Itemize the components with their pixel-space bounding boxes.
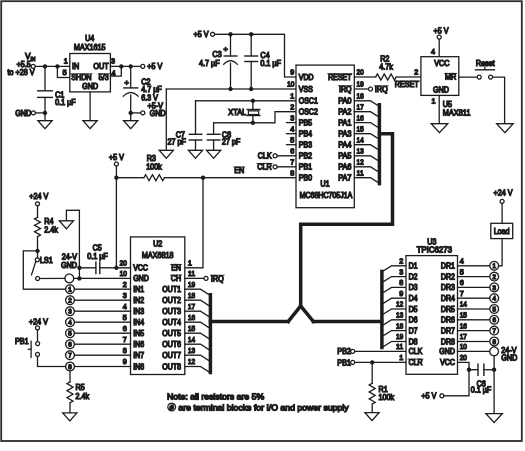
svg-text:IN: IN (72, 62, 79, 71)
node terminal 8 right (490, 337, 499, 346)
svg-text:D8: D8 (409, 337, 418, 346)
wire PA pins to bus (354, 101, 379, 183)
svg-text:13: 13 (357, 147, 364, 156)
svg-text:100k: 100k (379, 393, 395, 402)
node +24V PB1 terminal (29, 318, 49, 330)
svg-text:18: 18 (357, 92, 364, 101)
svg-text:6: 6 (123, 324, 127, 333)
svg-text:SHDN: SHDN (71, 73, 92, 82)
svg-text:D4: D4 (409, 294, 419, 303)
op IC U4 MAX1615 box (70, 34, 111, 92)
svg-text:Load: Load (494, 227, 510, 236)
svg-text:9: 9 (399, 289, 403, 298)
pin number labels U2 right (188, 259, 195, 367)
wire EN net to PB0 (164, 177, 296, 179)
svg-text:MAX6818: MAX6818 (142, 251, 174, 260)
svg-text:D6: D6 (409, 316, 418, 325)
svg-text:6: 6 (68, 342, 72, 349)
svg-text:14: 14 (188, 335, 195, 344)
svg-text:+: + (125, 78, 130, 87)
svg-text:20: 20 (120, 259, 127, 268)
svg-text:MC68HC705J1A: MC68HC705J1A (300, 191, 353, 200)
svg-text:Note: all resistors are 5%: Note: all resistors are 5% (167, 392, 264, 402)
svg-text:3: 3 (492, 285, 496, 292)
svg-text:+24 V: +24 V (29, 192, 49, 201)
svg-text:IRQ: IRQ (375, 85, 388, 94)
svg-text:IN: IN (31, 57, 36, 63)
bus horizontal left (210, 320, 288, 324)
resistor R1 100k (369, 362, 395, 412)
capacitor C5 0.1uF (79, 244, 130, 274)
svg-text:16: 16 (357, 113, 364, 122)
svg-text:D7: D7 (409, 326, 418, 335)
svg-text:17: 17 (357, 102, 364, 111)
resistor R3 100k (116, 154, 164, 181)
svg-text:1: 1 (492, 263, 496, 270)
junction R1 top (370, 360, 374, 364)
svg-text:OUT5: OUT5 (162, 329, 181, 338)
svg-text:are terminal blocks for I/O an: are terminal blocks for I/O and power su… (178, 403, 349, 413)
ground C8 (207, 150, 221, 158)
svg-text:OSC2: OSC2 (299, 108, 318, 117)
svg-text:PB4: PB4 (299, 130, 313, 139)
svg-text:5/3: 5/3 (99, 73, 109, 82)
svg-text:LS1: LS1 (40, 256, 53, 265)
node 24-V GND terminal left (65, 274, 131, 283)
svg-text:DR6: DR6 (441, 316, 455, 325)
svg-text:18: 18 (396, 321, 403, 330)
wire GND terminal to C1 (35, 112, 45, 114)
svg-text:2: 2 (399, 257, 403, 266)
svg-text:4: 4 (290, 124, 294, 133)
svg-text:IN1: IN1 (133, 285, 144, 294)
svg-text:TPIC6273: TPIC6273 (417, 246, 453, 255)
node terminal 7 right (490, 326, 499, 335)
ground R5 (63, 413, 77, 421)
svg-text:7: 7 (492, 328, 496, 335)
svg-text:2: 2 (414, 67, 418, 76)
bus Y split left leg (288, 306, 301, 322)
svg-text:5: 5 (460, 267, 464, 276)
svg-text:1: 1 (432, 97, 436, 106)
node terminal 4 left (66, 318, 75, 327)
svg-text:2: 2 (68, 298, 72, 305)
svg-text:PB1: PB1 (299, 163, 312, 172)
svg-text:PB2: PB2 (337, 347, 351, 356)
wire OSC2 net (214, 112, 296, 123)
svg-text:100k: 100k (146, 163, 162, 172)
svg-text:2.4k: 2.4k (44, 226, 58, 235)
junction C6 left (467, 368, 471, 372)
svg-text:6: 6 (460, 278, 464, 287)
svg-text:IN3: IN3 (133, 307, 144, 316)
svg-text:7: 7 (460, 289, 464, 298)
svg-text:U1: U1 (320, 180, 330, 189)
svg-text:3: 3 (123, 291, 127, 300)
svg-text:11: 11 (396, 342, 403, 351)
svg-text:2: 2 (290, 102, 294, 111)
capacitor C3 4.7uF (199, 34, 237, 89)
node +5V U5 terminal (434, 27, 450, 57)
svg-text:DR5: DR5 (441, 305, 456, 314)
svg-text:6: 6 (492, 317, 496, 324)
svg-text:9: 9 (290, 68, 294, 77)
capacitor C4 0.1uF (245, 34, 281, 89)
ground R1 (365, 413, 379, 421)
svg-text:0.1 µF: 0.1 µF (260, 59, 281, 68)
node terminal 2 right (490, 272, 499, 281)
capacitor C8 27pF (207, 123, 240, 151)
load block (491, 203, 513, 238)
svg-text:16: 16 (188, 313, 195, 322)
wires U2 outputs to bus (185, 289, 210, 372)
svg-text:19: 19 (357, 80, 364, 89)
bus Y split right leg (301, 306, 314, 322)
wires bus to U3 inputs (382, 266, 406, 348)
node CLR terminal (257, 163, 296, 172)
label 24-V GND left (61, 252, 78, 270)
svg-text:+5 V: +5 V (109, 153, 125, 162)
label U5 MAX811 (443, 100, 471, 117)
svg-text:CLR: CLR (257, 163, 272, 172)
node terminal 3 left (66, 307, 75, 316)
svg-text:GND: GND (433, 86, 449, 95)
wire 24V GND down (493, 356, 495, 414)
svg-text:1: 1 (188, 259, 192, 268)
svg-text:18: 18 (188, 291, 195, 300)
wire OSC1 net (196, 100, 297, 102)
svg-text:PB1: PB1 (15, 337, 29, 346)
node terminal 4 right (490, 294, 499, 303)
stub PB3 (287, 144, 297, 146)
ground U4 GND pin (83, 92, 97, 129)
svg-text:3: 3 (399, 267, 403, 276)
svg-text:1: 1 (64, 57, 68, 66)
node terminal 6 left (66, 340, 75, 349)
node +5V U3 terminal (421, 370, 469, 401)
svg-text:D2: D2 (409, 272, 418, 281)
junction pin4 jog (119, 64, 123, 68)
node IRQ terminal U1 (354, 85, 388, 94)
wire RESET net (354, 76, 375, 78)
svg-text:XTAL: XTAL (228, 108, 247, 117)
wire pin4 jog (110, 66, 121, 76)
svg-text:3: 3 (68, 309, 72, 316)
note text (167, 392, 349, 413)
resistor R2 4.7k (376, 54, 397, 80)
bus PA to main (301, 134, 393, 306)
svg-text:5: 5 (290, 135, 294, 144)
pin number labels U1 right (357, 68, 364, 178)
op IC U2 MAX6818 box (131, 237, 185, 375)
svg-text:19: 19 (396, 332, 403, 341)
svg-text:+5 V: +5 V (421, 392, 437, 401)
svg-text:0.1 µF: 0.1 µF (87, 252, 108, 261)
svg-text:GND: GND (133, 274, 149, 283)
wire +5V down to U2 VCC (115, 178, 117, 268)
wire U3 VCC to C6 (458, 362, 479, 369)
svg-text:7: 7 (68, 353, 72, 360)
wire +5V rail to VDD (215, 34, 296, 77)
svg-text:OUT: OUT (93, 62, 108, 71)
svg-text:IN5: IN5 (133, 329, 144, 338)
svg-text:D5: D5 (409, 305, 419, 314)
svg-text:4.7 µF: 4.7 µF (199, 59, 220, 68)
svg-text:PA7: PA7 (338, 174, 351, 183)
pin number labels U3 right (460, 257, 467, 363)
svg-text:+5 V: +5 V (434, 27, 450, 36)
svg-text:1: 1 (68, 287, 72, 294)
wire VIN to U4 IN (35, 65, 70, 67)
svg-text:OSC1: OSC1 (299, 97, 318, 106)
node terminal 3 right (490, 283, 499, 292)
wire R4 node to IN1 (23, 251, 65, 289)
svg-text:MR: MR (445, 73, 456, 82)
svg-text:5: 5 (63, 68, 67, 77)
svg-text:RESET: RESET (395, 80, 419, 89)
svg-text:IRQ: IRQ (211, 274, 224, 283)
wire Reset to ground (493, 77, 505, 124)
svg-text:10: 10 (460, 342, 467, 351)
svg-text:GND: GND (15, 109, 31, 118)
wire EN down to U2 pin1 (185, 178, 203, 268)
svg-text:IN6: IN6 (133, 340, 144, 349)
wire SHDN jog (57, 66, 69, 77)
junction SHDN tie (55, 64, 59, 68)
svg-text:4: 4 (123, 302, 127, 311)
junction R3 left (114, 176, 118, 180)
svg-text:8: 8 (399, 278, 403, 287)
svg-text:MAX1615: MAX1615 (74, 43, 106, 52)
svg-text:17: 17 (460, 332, 467, 341)
ground 24V GND right (486, 414, 503, 423)
svg-text:PB0: PB0 (299, 174, 313, 183)
crystal XTAL (228, 101, 259, 123)
svg-text:11: 11 (188, 269, 195, 278)
svg-text:Reset: Reset (476, 59, 495, 68)
node +5-V GND terminal (133, 102, 166, 118)
wire +5V down to R3 node (115, 166, 117, 178)
wire Load to terminal 1 (499, 239, 503, 266)
svg-text:8: 8 (492, 339, 496, 346)
ground 24V tie (59, 210, 79, 267)
node terminal 7 left (66, 351, 75, 360)
svg-text:PB3: PB3 (299, 141, 312, 150)
svg-text:EN: EN (234, 166, 244, 175)
svg-text:PA4: PA4 (338, 141, 352, 150)
svg-text:1: 1 (399, 353, 403, 362)
svg-text:PA2: PA2 (338, 108, 351, 117)
svg-text:20: 20 (357, 68, 364, 77)
wire C5 gnd jog (78, 268, 80, 279)
svg-text:PA6: PA6 (338, 163, 351, 172)
svg-text:7: 7 (290, 158, 294, 167)
svg-text:8: 8 (68, 364, 72, 371)
svg-text:U2: U2 (153, 240, 163, 249)
svg-text:4: 4 (460, 257, 464, 266)
node VIN terminal (8, 52, 36, 77)
svg-text:PB2: PB2 (299, 152, 312, 161)
junction C2 tap (129, 64, 133, 68)
svg-text:15: 15 (357, 124, 364, 133)
node GND input terminal (15, 109, 35, 118)
svg-text:2.4k: 2.4k (76, 392, 90, 401)
svg-text:CLK: CLK (409, 347, 423, 356)
svg-text:OUT2: OUT2 (162, 296, 181, 305)
ground C1 (38, 113, 52, 129)
node +24V R4 terminal (29, 192, 49, 206)
svg-text:IN8: IN8 (133, 362, 144, 371)
junction C5 gnd branch (77, 276, 81, 280)
svg-text:0.1 µF: 0.1 µF (471, 385, 492, 394)
svg-text:4.7k: 4.7k (379, 63, 393, 72)
wire LS1 to 24V GND (40, 277, 65, 279)
junction EN tap (201, 176, 205, 180)
svg-text:PB5: PB5 (299, 118, 313, 127)
svg-text:8: 8 (290, 168, 294, 177)
node IRQ terminal U2 (185, 274, 224, 283)
pin number labels U1 left (290, 92, 294, 178)
junction C1 tap (43, 64, 47, 68)
svg-text:GND: GND (439, 347, 455, 356)
junction +5V at VCC (114, 266, 118, 270)
svg-text:U4: U4 (85, 34, 95, 43)
switch Reset pushbutton (459, 59, 496, 79)
svg-text:DR8: DR8 (441, 337, 455, 346)
svg-text:4: 4 (431, 47, 435, 56)
svg-text:PA5: PA5 (338, 152, 352, 161)
junction C3 top (228, 32, 232, 36)
node PB1 terminal right (337, 358, 406, 367)
node terminal 1 left (66, 285, 75, 294)
ground U5 (431, 95, 448, 132)
node 24-V GND terminal right (458, 346, 518, 362)
svg-text:GND: GND (150, 109, 166, 118)
svg-text:19: 19 (188, 280, 195, 289)
capacitor C1 0.1uF (38, 66, 76, 113)
svg-text:27 pF: 27 pF (222, 138, 240, 147)
svg-text:GND: GND (501, 353, 517, 362)
svg-text:DR4: DR4 (441, 294, 456, 303)
capacitor C6 0.1uF (471, 364, 494, 394)
svg-text:to +28 V: to +28 V (8, 68, 36, 77)
junction C6 right (492, 368, 496, 372)
pin number labels U2 left (120, 259, 127, 367)
stub PB4 (287, 133, 297, 135)
svg-text:0.1 µF: 0.1 µF (55, 98, 76, 107)
stub PB5 (287, 122, 297, 124)
switch LS1 (32, 251, 54, 281)
junction XTAL top (251, 99, 255, 103)
svg-text:+24 V: +24 V (29, 318, 49, 327)
node +24V Load terminal (494, 188, 514, 203)
svg-text:OUT1: OUT1 (162, 285, 181, 294)
svg-text:6: 6 (290, 147, 294, 156)
junction C1 gnd (43, 111, 47, 115)
svg-text:D3: D3 (409, 283, 418, 292)
junction XTAL bottom (251, 121, 255, 125)
wires terminals to U2 inputs (75, 289, 131, 366)
svg-text:DR2: DR2 (441, 272, 455, 281)
svg-text:VCC: VCC (133, 264, 148, 273)
svg-text:RESET: RESET (328, 73, 352, 82)
wire R2 to U5 MR (396, 76, 421, 78)
junction R4 bottom (35, 249, 39, 253)
op IC U3 TPIC6273 box (406, 238, 458, 375)
junction C4 bottom (249, 87, 253, 91)
node +5V rail terminal (194, 30, 215, 39)
node +5V output terminal (141, 62, 163, 71)
svg-text:VCC: VCC (440, 358, 455, 367)
svg-text:2: 2 (492, 274, 496, 281)
resistor R5 2.4k (67, 371, 90, 413)
svg-text:CLK: CLK (258, 152, 273, 161)
junction C3 bottom (228, 87, 232, 91)
ground C2 (124, 113, 138, 129)
svg-text:R5: R5 (76, 383, 86, 392)
svg-text:13: 13 (188, 346, 195, 355)
svg-text:IN2: IN2 (133, 296, 144, 305)
svg-text:IRQ: IRQ (339, 85, 352, 94)
svg-text:1: 1 (290, 92, 294, 101)
node terminal 8 left (66, 362, 75, 371)
svg-text:3: 3 (111, 57, 115, 66)
node terminal 5 left (66, 329, 75, 338)
node CLK terminal (258, 152, 296, 161)
svg-text:+5 V: +5 V (147, 62, 163, 71)
svg-text:5: 5 (492, 306, 496, 313)
svg-text:13: 13 (396, 311, 403, 320)
svg-text:14: 14 (460, 300, 467, 309)
svg-text:OUT6: OUT6 (162, 340, 181, 349)
svg-text:OUT3: OUT3 (162, 307, 181, 316)
node terminal 6 right (490, 315, 499, 324)
svg-text:OUT8: OUT8 (162, 362, 181, 371)
svg-text:OUT4: OUT4 (162, 318, 181, 327)
svg-text:DR7: DR7 (441, 326, 455, 335)
svg-text:14: 14 (357, 135, 364, 144)
svg-text:4: 4 (492, 296, 496, 303)
pin number labels U3 left (396, 257, 403, 363)
svg-text:VSS: VSS (299, 85, 313, 94)
wire VSS net (166, 88, 296, 90)
svg-text:5: 5 (123, 313, 127, 322)
svg-text:2: 2 (123, 280, 127, 289)
bus U3 inputs vertical (380, 271, 384, 347)
svg-text:DR3: DR3 (441, 283, 455, 292)
capacitor C7 27pF (168, 101, 202, 151)
svg-text:17: 17 (188, 302, 195, 311)
node +5V R3 terminal (109, 153, 125, 166)
svg-text:16: 16 (460, 321, 467, 330)
junction C5 left (77, 266, 81, 270)
capacitor C2 4.7uF (123, 66, 162, 113)
svg-text:DR1: DR1 (441, 262, 455, 271)
wire U4 OUT to +5V terminal (110, 65, 140, 67)
svg-text:10: 10 (287, 80, 294, 89)
svg-text:11: 11 (357, 168, 364, 177)
svg-text:+5 V: +5 V (194, 30, 210, 39)
svg-text:4: 4 (68, 320, 72, 327)
svg-text:9: 9 (123, 357, 127, 366)
svg-text:GND: GND (61, 261, 77, 270)
svg-text:10: 10 (120, 269, 127, 278)
svg-text:IN4: IN4 (133, 318, 144, 327)
svg-text:VCC: VCC (434, 59, 449, 68)
svg-text:PA0: PA0 (338, 97, 352, 106)
svg-text:OUT7: OUT7 (162, 351, 181, 360)
svg-text:5: 5 (68, 331, 72, 338)
